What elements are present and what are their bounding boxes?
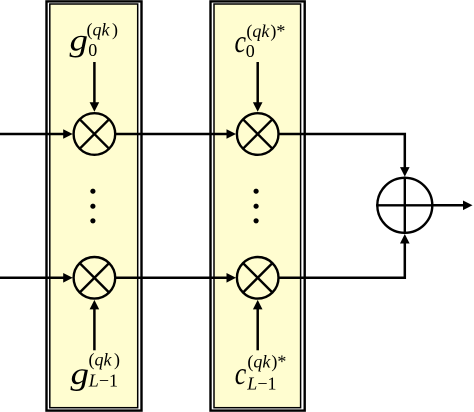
arrow from label c0 into M3 — [253, 62, 263, 112]
vertical ellipsis dots left block — [90, 189, 95, 224]
wire to adder from top multiplier — [279, 134, 410, 177]
wire input bottom — [0, 273, 73, 283]
multiplier M2 (left block bottom) — [74, 257, 116, 299]
svg-text:c: c — [235, 355, 247, 391]
svg-text:0: 0 — [246, 41, 255, 61]
svg-text:g: g — [70, 22, 89, 58]
svg-text:c: c — [235, 23, 247, 59]
svg-text:L−1: L−1 — [246, 374, 276, 394]
wire between blocks top — [115, 129, 236, 139]
wire between blocks bottom — [115, 273, 236, 283]
multiplier M4 (right block bottom) — [237, 257, 279, 299]
tap-weight block (left, double border) — [47, 1, 142, 410]
svg-text:g: g — [71, 355, 90, 391]
arrow from label cL-1 into M4 — [253, 300, 263, 350]
output wire — [434, 201, 473, 211]
arrow from label g0 into M1 — [90, 62, 100, 112]
multiplier M1 (left block top) — [74, 113, 116, 155]
label c0^(qk)* — [235, 21, 286, 61]
svg-text:(qk)*: (qk)* — [247, 351, 286, 372]
svg-text:(qk): (qk) — [87, 20, 119, 41]
svg-text:L−1: L−1 — [88, 371, 118, 391]
multiplier M3 (right block top) — [237, 113, 279, 155]
label cL-1^(qk)* — [235, 351, 287, 393]
label g0^(qk) — [70, 20, 119, 60]
wire input top — [0, 129, 73, 139]
arrow from label gL-1 into M2 — [90, 300, 100, 350]
label gL-1^(qk) — [71, 350, 121, 391]
wire to adder from bottom multiplier — [279, 234, 410, 278]
svg-text:0: 0 — [88, 40, 97, 60]
svg-text:(qk)*: (qk)* — [246, 21, 285, 42]
code block (right, double border) — [211, 1, 305, 410]
adder (summation node) — [376, 177, 433, 234]
vertical ellipsis dots right block — [254, 189, 259, 224]
svg-text:(qk): (qk) — [89, 350, 121, 371]
